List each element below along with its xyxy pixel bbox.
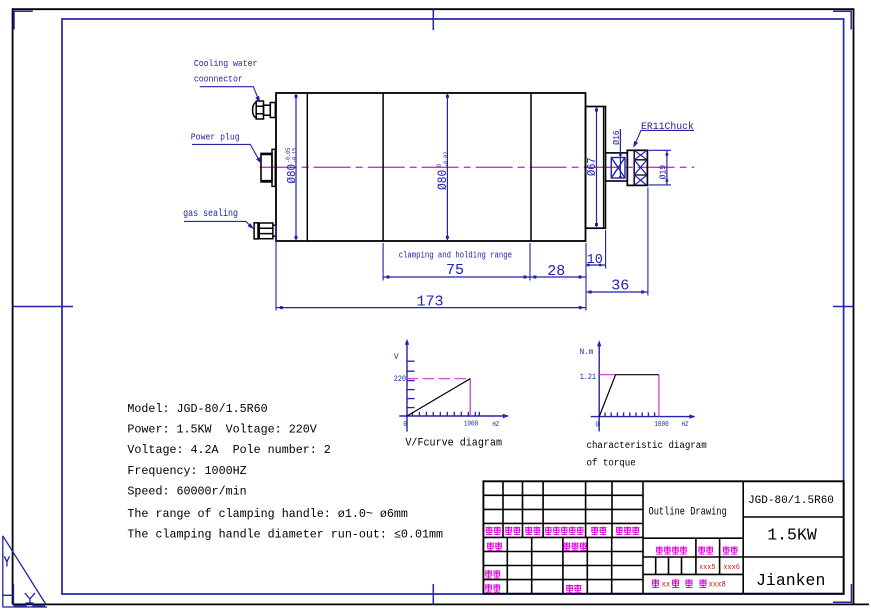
VF x ticks — [411, 412, 413, 416]
cjk gongyi — [485, 584, 492, 592]
dim dia80 right — [446, 94, 448, 240]
torque x ticks — [604, 412, 606, 416]
svg-text:0: 0 — [595, 421, 599, 429]
dim 75 — [383, 276, 530, 278]
svg-text:75: 75 — [446, 262, 464, 279]
svg-text:Jianken: Jianken — [756, 571, 825, 590]
cjk biaozhunhua — [563, 542, 570, 550]
extension lines bottom — [275, 225, 277, 311]
svg-text:of torque: of torque — [587, 457, 636, 468]
svg-text:gas sealing: gas sealing — [183, 208, 238, 220]
body section line 1 — [306, 93, 308, 241]
svg-text:V/Fcurve diagram: V/Fcurve diagram — [405, 437, 502, 449]
VF 1000 ref line — [469, 379, 471, 416]
svg-text:Voltage: 4.2A Pole number: 2: Voltage: 4.2A Pole number: 2 — [127, 443, 330, 457]
dim 173 — [276, 307, 586, 309]
dim dia19 — [649, 149, 672, 151]
leader power plug — [192, 144, 260, 161]
dim dia67 — [596, 108, 598, 228]
svg-text:xx: xx — [662, 581, 671, 589]
svg-text:220: 220 — [394, 376, 406, 385]
title block outer — [483, 481, 843, 593]
svg-text:The range of clamping handle:: The range of clamping handle: ø1.0~ ø6mm — [127, 507, 408, 521]
cjk stage mark — [656, 546, 663, 554]
svg-text:28: 28 — [547, 263, 565, 280]
torque graph axes — [598, 343, 600, 432]
corner tick top-right — [833, 11, 851, 29]
svg-text:1.5KW: 1.5KW — [767, 525, 817, 544]
svg-text:173: 173 — [416, 293, 443, 310]
VF 220 ref line — [407, 378, 470, 380]
svg-text:Ø80: Ø80 — [286, 164, 299, 184]
svg-text:Speed: 60000r/min: Speed: 60000r/min — [127, 485, 246, 499]
front flange — [586, 107, 606, 229]
fold mark triangle bottom-left — [3, 536, 48, 607]
cooling water connector — [253, 101, 276, 119]
svg-text:Outline Drawing: Outline Drawing — [649, 506, 727, 518]
shaft nose — [605, 153, 627, 181]
svg-text:10: 10 — [587, 253, 603, 268]
dim 28 — [530, 276, 586, 278]
sheet count row — [652, 579, 659, 588]
VF graph axes — [406, 341, 408, 431]
svg-text:Ø80: Ø80 — [436, 170, 451, 190]
svg-text:Frequency: 1000HZ: Frequency: 1000HZ — [127, 464, 246, 478]
svg-text:Cooling water: Cooling water — [194, 59, 258, 70]
corner tick top-left — [14, 11, 33, 29]
centerline — [260, 166, 694, 168]
dim 36 — [586, 291, 648, 293]
svg-text:JGD-80/1.5R60: JGD-80/1.5R60 — [748, 495, 834, 507]
svg-text:The clamping handle diameter r: The clamping handle diameter run-out: ≤0… — [127, 528, 443, 542]
cjk sheji — [487, 542, 494, 550]
svg-text:ER11Chuck: ER11Chuck — [641, 121, 694, 132]
corner tick bottom-right — [833, 584, 851, 602]
chuck crossed boxes — [634, 160, 647, 175]
chuck collar line — [633, 150, 635, 185]
leader cooling water — [200, 87, 259, 100]
svg-text:Ø19: Ø19 — [658, 165, 669, 180]
svg-text:coonnector: coonnector — [194, 74, 243, 85]
dim dia80 left — [295, 94, 297, 240]
svg-text:V: V — [394, 353, 399, 362]
svg-text:Ø16: Ø16 — [612, 130, 623, 145]
svg-text:Power plug: Power plug — [191, 132, 240, 143]
leader ER11 chuck — [635, 130, 695, 145]
dim 10 — [586, 264, 606, 266]
VF y ticks — [407, 360, 415, 362]
centering mark left — [13, 306, 73, 308]
svg-text:xxx8: xxx8 — [709, 581, 727, 589]
svg-text:36: 36 — [611, 277, 629, 294]
VF curve — [407, 379, 470, 416]
cjk shenhe — [485, 570, 492, 578]
ER11 chuck body — [627, 150, 647, 185]
svg-text:-0.02: -0.02 — [443, 152, 451, 167]
centering mark right — [833, 306, 854, 308]
svg-text:-0.15: -0.15 — [291, 148, 299, 163]
svg-text:1.21: 1.21 — [580, 374, 597, 383]
svg-text:HZ: HZ — [492, 421, 499, 429]
title block grid — [483, 481, 843, 593]
torque ref magenta — [599, 374, 615, 376]
svg-text:characteristic diagram: characteristic diagram — [587, 440, 708, 451]
gas sealing fitting — [254, 223, 275, 239]
spindle body — [276, 93, 586, 241]
svg-text:1000: 1000 — [654, 420, 668, 428]
svg-text:xxx6: xxx6 — [723, 564, 739, 572]
svg-text:clamping and holding range: clamping and holding range — [399, 250, 512, 261]
svg-text:N.m: N.m — [580, 348, 594, 357]
cjk pizhun — [566, 584, 573, 592]
svg-text:1000: 1000 — [464, 420, 478, 428]
leader gas sealing — [184, 221, 252, 227]
title texts cjk header row — [486, 526, 493, 534]
centering mark bottom — [432, 584, 434, 604]
centering mark top — [432, 9, 434, 30]
shaft crossed box — [611, 158, 625, 179]
svg-text:Model: JGD-80/1.5R60: Model: JGD-80/1.5R60 — [127, 402, 267, 416]
body section line 3 — [530, 93, 532, 241]
svg-text:HZ: HZ — [682, 421, 689, 429]
power plug — [261, 149, 275, 186]
svg-text:xxx5: xxx5 — [699, 564, 715, 572]
svg-text:Ø67: Ø67 — [587, 157, 600, 176]
flange inner edge — [603, 107, 605, 229]
svg-text:0: 0 — [403, 421, 407, 429]
svg-text:Power: 1.5KW Voltage: 220V: Power: 1.5KW Voltage: 220V — [127, 423, 316, 437]
dim dia16 — [619, 129, 621, 179]
torque curve — [599, 375, 659, 417]
body section line 2 — [382, 93, 384, 241]
